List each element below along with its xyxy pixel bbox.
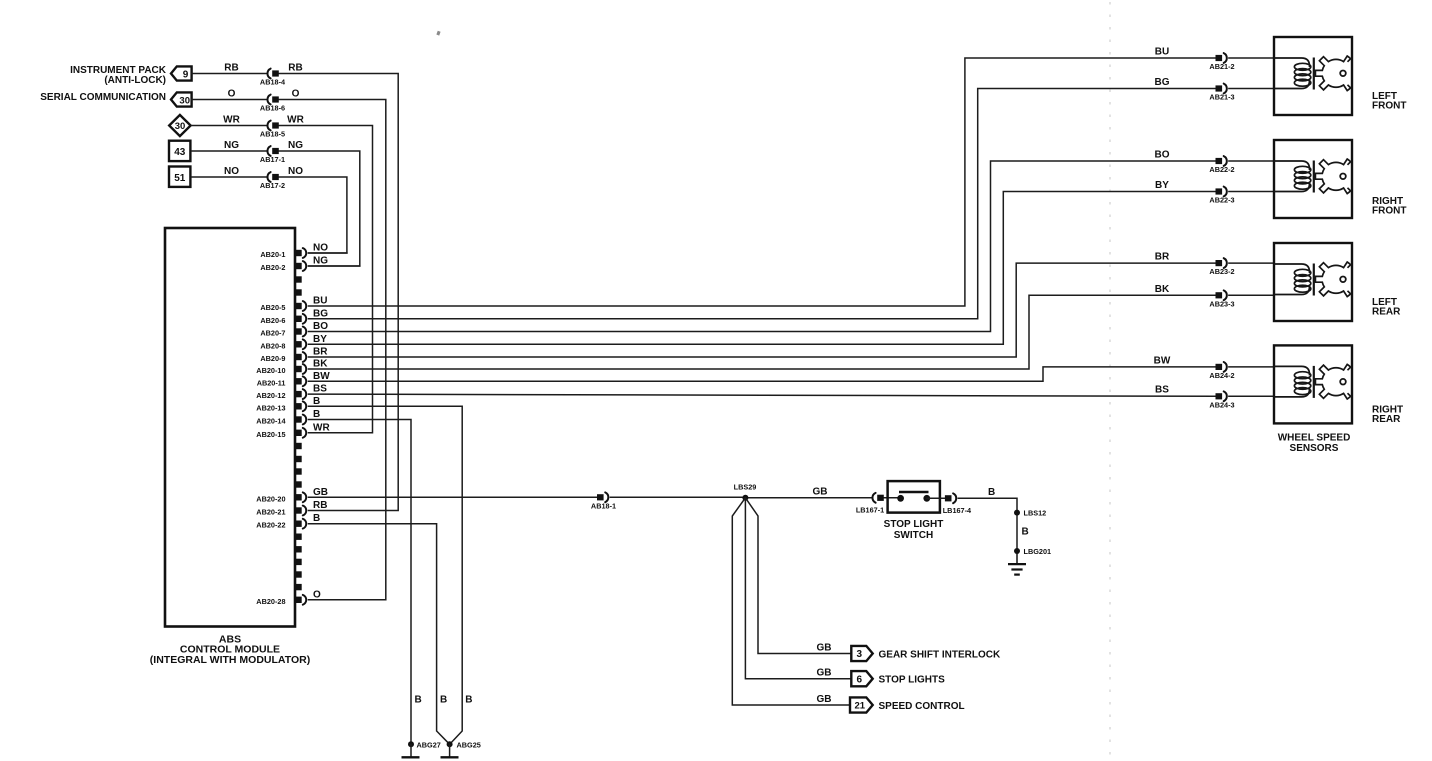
blank module pin [295, 456, 302, 462]
wire B (LB167-4 to LBG201) [958, 498, 1017, 551]
svg-text:AB20-9: AB20-9 [260, 354, 285, 363]
inline connector AB24-2 [1209, 362, 1234, 380]
wire BG (AB20 pin to AB21-3) [309, 89, 1216, 319]
svg-text:AB21-3: AB21-3 [1209, 93, 1234, 102]
svg-text:(INTEGRAL WITH MODULATOR): (INTEGRAL WITH MODULATOR) [150, 654, 310, 666]
svg-text:30: 30 [175, 121, 186, 132]
wire into sensor from AB24-3 [1229, 395, 1274, 397]
inline connector AB18-6 [260, 95, 285, 113]
label WHEEL SPEED SENSORS [1278, 433, 1351, 455]
svg-text:BK: BK [1155, 284, 1170, 295]
splice LBS29 [742, 495, 748, 501]
wire GB (LBS29 to stop lights) [745, 498, 851, 679]
svg-text:AB20-8: AB20-8 [260, 341, 285, 350]
inline connector AB22-2 [1209, 156, 1234, 174]
svg-text:AB18-5: AB18-5 [260, 130, 285, 139]
wire into sensor from AB21-2 [1229, 57, 1274, 59]
svg-text:AB20-2: AB20-2 [260, 263, 285, 272]
wheel speed sensor LEFT FRONT [1274, 37, 1352, 115]
svg-text:RB: RB [288, 63, 302, 74]
wheel speed sensor RIGHT FRONT [1274, 140, 1352, 218]
wire GB (out of switch) [927, 497, 945, 499]
svg-text:AB20-7: AB20-7 [260, 329, 285, 338]
ground ABG25 [449, 744, 451, 757]
module pin AB20-10 [256, 364, 306, 375]
wire GB (LBS29 to speed control) [732, 498, 850, 705]
svg-text:LBG201: LBG201 [1024, 547, 1052, 556]
svg-text:AB21-2: AB21-2 [1209, 62, 1234, 71]
svg-text:AB22-3: AB22-3 [1209, 196, 1234, 205]
wire BY (AB20 pin to AB22-3) [309, 192, 1216, 345]
label LEFT REAR [1372, 297, 1401, 318]
svg-text:GB: GB [817, 643, 832, 654]
svg-text:AB20-1: AB20-1 [260, 250, 285, 259]
svg-text:B: B [1022, 527, 1029, 538]
svg-text:BU: BU [1155, 47, 1169, 58]
svg-text:WR: WR [287, 115, 304, 126]
svg-text:FRONT: FRONT [1372, 206, 1406, 217]
svg-text:6: 6 [857, 674, 863, 685]
module pin AB20-15 [256, 428, 306, 439]
svg-text:AB24-3: AB24-3 [1209, 400, 1234, 409]
svg-text:SENSORS: SENSORS [1290, 443, 1339, 454]
svg-text:21: 21 [855, 701, 866, 712]
svg-text:RB: RB [224, 63, 238, 74]
svg-text:O: O [228, 89, 236, 100]
terminal 51 [169, 167, 190, 187]
blank module pin [295, 468, 302, 474]
svg-text:AB20-15: AB20-15 [256, 430, 285, 439]
wire B (AB20-13 to ABG25) [309, 406, 463, 744]
svg-text:AB17-2: AB17-2 [260, 181, 285, 190]
svg-text:B: B [465, 695, 472, 706]
svg-text:WR: WR [223, 115, 240, 126]
ground LBG201 [1008, 551, 1026, 575]
wire BR (AB20 pin to AB23-2) [309, 263, 1216, 357]
label STOP LIGHT SWITCH [884, 519, 944, 541]
splice ABG25 [447, 741, 453, 747]
svg-text:B: B [313, 396, 320, 407]
svg-text:NG: NG [288, 140, 303, 151]
wire RB stub (AB18-4 left) [192, 73, 267, 75]
svg-text:LBS12: LBS12 [1024, 509, 1047, 518]
splice LBG201 [1014, 548, 1020, 554]
svg-text:AB23-2: AB23-2 [1209, 267, 1234, 276]
inline connector AB21-3 [1209, 84, 1234, 102]
svg-text:BS: BS [313, 384, 327, 395]
svg-text:AB20-5: AB20-5 [260, 303, 285, 312]
svg-text:NO: NO [313, 243, 328, 254]
svg-text:WR: WR [313, 422, 330, 433]
svg-text:B: B [313, 409, 320, 420]
wire O (AB18-6 to module) [279, 100, 386, 600]
terminal 21 (speed control) [850, 697, 873, 712]
inline connector AB23-2 [1209, 258, 1234, 276]
svg-text:LBS29: LBS29 [734, 483, 757, 492]
svg-text:SPEED CONTROL: SPEED CONTROL [879, 701, 965, 712]
svg-text:STOP LIGHTS: STOP LIGHTS [879, 675, 946, 686]
svg-text:O: O [292, 89, 300, 100]
svg-text:BW: BW [313, 371, 330, 382]
module pin AB20-1 [260, 248, 306, 259]
blank module pin [295, 289, 302, 295]
wire WR (AB18-5 to module) [279, 126, 372, 433]
wire GB (into switch) [884, 497, 901, 499]
svg-text:AB20-20: AB20-20 [256, 494, 285, 503]
inline connector LB167-4 [943, 493, 972, 514]
svg-text:NO: NO [224, 166, 239, 177]
svg-text:SWITCH: SWITCH [894, 530, 933, 541]
wire GB (AB18-1 to LBS29) [610, 496, 745, 498]
svg-text:AB20-14: AB20-14 [256, 417, 286, 426]
svg-text:NG: NG [313, 256, 328, 267]
terminal 9 (instrument pack) [171, 66, 192, 80]
blank module pin [295, 276, 302, 282]
wire BW (AB20 pin to AB24-2) [309, 367, 1216, 381]
module pin AB20-13 [256, 401, 306, 412]
svg-text:AB20-6: AB20-6 [260, 316, 285, 325]
svg-text:LB167-4: LB167-4 [943, 506, 972, 515]
wire BK (AB20 pin to AB23-3) [309, 295, 1216, 369]
svg-text:BK: BK [313, 359, 328, 370]
svg-text:GB: GB [817, 668, 832, 679]
svg-text:AB20-11: AB20-11 [257, 378, 286, 387]
svg-text:AB18-6: AB18-6 [260, 104, 285, 113]
svg-text:ABG25: ABG25 [457, 740, 481, 749]
svg-text:REAR: REAR [1372, 414, 1401, 425]
ground ABG27 [410, 744, 412, 757]
stop light switch [888, 481, 940, 512]
svg-text:AB20-12: AB20-12 [256, 391, 285, 400]
module pin AB20-8 [260, 339, 306, 350]
svg-text:GB: GB [813, 486, 828, 497]
svg-text:ABG27: ABG27 [417, 740, 441, 749]
svg-text:AB17-1: AB17-1 [260, 155, 285, 164]
svg-text:43: 43 [174, 147, 186, 158]
svg-text:BW: BW [1154, 355, 1171, 366]
svg-text:BO: BO [313, 321, 328, 332]
svg-text:BG: BG [1155, 77, 1170, 88]
inline connector AB17-1 [260, 146, 285, 164]
svg-text:AB20-28: AB20-28 [256, 597, 285, 606]
wheel speed sensor LEFT REAR [1274, 243, 1352, 321]
wire WR stub (AB18-5 left) [192, 125, 267, 127]
svg-text:GEAR SHIFT INTERLOCK: GEAR SHIFT INTERLOCK [879, 650, 1001, 661]
label RIGHT FRONT [1372, 196, 1406, 217]
wire B (AB20-22 to ABG25) [309, 524, 450, 745]
wire BS (AB20-12 to AB24-3) [309, 394, 1216, 396]
svg-text:GB: GB [817, 694, 832, 705]
svg-text:B: B [440, 695, 447, 706]
wire GB (LBS29 to LB167-1) [745, 497, 871, 499]
svg-text:O: O [313, 589, 321, 600]
wire BO (AB20 pin to AB22-2) [309, 161, 1216, 332]
inline connector AB24-3 [1209, 391, 1234, 409]
wire O stub (AB18-6 left) [192, 99, 267, 101]
svg-text:LB167-1: LB167-1 [856, 505, 884, 514]
wire NG (AB20-2) [309, 265, 360, 267]
svg-text:BY: BY [313, 334, 327, 345]
svg-text:BR: BR [313, 347, 328, 358]
svg-text:AB24-2: AB24-2 [1209, 371, 1234, 380]
svg-text:RB: RB [313, 500, 327, 511]
module pin AB20-20 [256, 492, 306, 503]
module pin AB20-22 [256, 519, 306, 530]
svg-text:30: 30 [179, 95, 190, 106]
wire GB (AB20-20 to AB18-1) [309, 496, 598, 498]
inline connector AB22-3 [1209, 187, 1234, 205]
inline connector AB18-4 [260, 69, 286, 87]
module pin AB20-7 [260, 327, 306, 338]
inline connector LB167-1 [856, 493, 884, 514]
wire NG stub (AB17-1 left) [192, 150, 267, 152]
blank module pin [295, 584, 302, 590]
module pin AB20-2 [260, 261, 306, 272]
inline connector AB18-5 [260, 121, 285, 139]
label INSTRUMENT PACK (ANTI-LOCK) [70, 65, 167, 86]
terminal 43 [169, 141, 190, 161]
svg-text:AB23-3: AB23-3 [1209, 299, 1234, 308]
wire into sensor from AB21-3 [1229, 88, 1274, 90]
terminal 30 (diamond) [169, 115, 190, 136]
svg-text:3: 3 [857, 649, 863, 660]
svg-text:GB: GB [313, 487, 328, 498]
blank module pin [295, 559, 302, 565]
svg-text:51: 51 [174, 173, 186, 184]
module pin AB20-6 [260, 314, 306, 325]
wire B (AB20-14 to ABG27) [309, 420, 412, 745]
svg-text:NO: NO [288, 166, 303, 177]
page fold dashed line [1109, 2, 1111, 756]
module pin AB20-11 [257, 376, 307, 387]
svg-text:AB22-2: AB22-2 [1209, 165, 1234, 174]
blank module pin [295, 481, 302, 487]
wire NO (AB17-2 to module) [279, 177, 347, 253]
svg-text:AB18-1: AB18-1 [591, 501, 616, 510]
splice ABG27 [408, 741, 414, 747]
label LEFT FRONT [1372, 91, 1406, 112]
svg-text:WHEEL SPEED: WHEEL SPEED [1278, 433, 1351, 444]
wire into sensor from AB23-3 [1229, 294, 1274, 296]
inline connector AB23-3 [1209, 290, 1234, 308]
wire into sensor from AB22-3 [1229, 191, 1274, 193]
svg-text:NG: NG [224, 140, 239, 151]
ABS control module box [165, 228, 295, 627]
blank module pin [295, 546, 302, 552]
svg-text:BS: BS [1155, 385, 1169, 396]
wire BU (AB20 pin to AB21-2) [309, 58, 1216, 306]
svg-text:BU: BU [313, 296, 327, 307]
wire GB (LBS29 to gear shift interlock) [745, 498, 851, 654]
svg-text:9: 9 [183, 69, 189, 80]
terminal 30 (serial communication) [171, 92, 192, 106]
inline connector AB21-2 [1209, 53, 1234, 71]
module pin AB20-28 [256, 595, 306, 606]
svg-text:BG: BG [313, 308, 328, 319]
svg-text:AB20-22: AB20-22 [256, 521, 285, 530]
wire NO stub (AB17-2 left) [192, 176, 267, 178]
inline connector AB17-2 [260, 172, 285, 190]
module pin AB20-12 [256, 389, 306, 400]
svg-text:(ANTI-LOCK): (ANTI-LOCK) [104, 75, 166, 86]
terminal 3 (gear shift interlock) [851, 646, 872, 661]
svg-text:REAR: REAR [1372, 307, 1401, 318]
label RIGHT REAR [1372, 405, 1403, 426]
svg-text:BO: BO [1155, 150, 1170, 161]
label ABS CONTROL MODULE (INTEGRAL WITH MODULATOR) [150, 634, 310, 667]
terminal 6 (stop lights) [851, 671, 872, 686]
svg-text:STOP LIGHT: STOP LIGHT [884, 519, 944, 530]
svg-text:FRONT: FRONT [1372, 101, 1406, 112]
wire into sensor from AB22-2 [1229, 160, 1274, 162]
wire NO (AB20-1) [309, 252, 347, 254]
wheel speed sensor RIGHT REAR [1274, 345, 1352, 423]
svg-text:AB20-10: AB20-10 [256, 366, 285, 375]
module pin AB20-21 [256, 506, 306, 517]
wire into sensor from AB23-2 [1229, 262, 1274, 264]
svg-text:B: B [988, 487, 995, 498]
wire RB (AB18-4 to module) [279, 74, 398, 511]
module pin AB20-14 [256, 415, 306, 426]
module pin AB20-9 [260, 352, 306, 363]
svg-text:B: B [415, 695, 422, 706]
blank module pin [295, 534, 302, 540]
svg-text:BR: BR [1155, 252, 1170, 263]
splice LBS12 [1014, 510, 1020, 516]
inline connector AB18-1 [591, 492, 616, 510]
stray mark [436, 31, 440, 36]
wire NG (AB17-1 to module) [279, 151, 360, 266]
svg-text:AB20-13: AB20-13 [256, 403, 285, 412]
svg-text:B: B [313, 513, 320, 524]
svg-text:AB18-4: AB18-4 [260, 78, 286, 87]
module pin AB20-5 [260, 301, 306, 312]
blank module pin [295, 571, 302, 577]
svg-text:BY: BY [1155, 180, 1169, 191]
blank module pin [295, 443, 302, 449]
svg-text:SERIAL COMMUNICATION: SERIAL COMMUNICATION [40, 92, 166, 103]
wire into sensor from AB24-2 [1229, 366, 1274, 368]
svg-text:AB20-21: AB20-21 [256, 508, 285, 517]
